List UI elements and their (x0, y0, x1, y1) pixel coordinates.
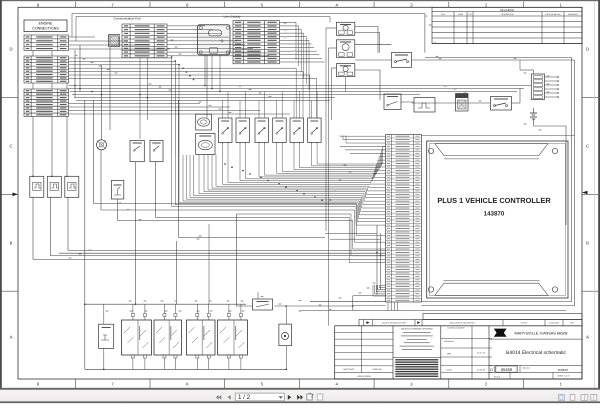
svg-text:11-07-23: 11-07-23 (477, 352, 486, 355)
svg-text:DATE(YR-MO-DA): DATE(YR-MO-DA) (546, 13, 561, 16)
svg-text:SCALE: SCALE (494, 375, 501, 378)
svg-text:11-09-24: 11-09-24 (477, 368, 486, 371)
svg-text:A: A (586, 335, 589, 340)
svg-text:USED ON: USED ON (372, 368, 382, 371)
svg-text:JPG: JPG (447, 353, 452, 356)
svg-text:163230: 163230 (557, 368, 567, 372)
svg-text:C: C (9, 144, 12, 149)
svg-text:TABLE OF REVISION HISTORY: TABLE OF REVISION HISTORY (382, 322, 407, 325)
svg-text:APPLICATION: APPLICATION (357, 375, 371, 378)
svg-text:D: D (9, 47, 12, 52)
svg-text:65459: 65459 (501, 367, 513, 372)
svg-text:MARYSVILLE, KANSAS 66508: MARYSVILLE, KANSAS 66508 (515, 331, 568, 335)
svg-text:ZONE: ZONE (458, 13, 464, 16)
svg-text:D: D (490, 368, 493, 372)
svg-text:UNLESS OTHERWISE SPECIFIED: UNLESS OTHERWISE SPECIFIED (401, 328, 433, 331)
svg-text:CONTRACT NUMBER: CONTRACT NUMBER (447, 327, 465, 330)
svg-text:APPROVED: APPROVED (568, 13, 579, 16)
svg-text:CONNECTIONS: CONNECTIONS (32, 27, 59, 31)
svg-text:APPROVALS: APPROVALS (444, 340, 455, 343)
svg-text:STATUS: STATUS (521, 322, 528, 325)
svg-text:A: A (10, 335, 13, 340)
svg-text:C: C (586, 144, 589, 149)
svg-text:143870: 143870 (484, 211, 505, 218)
svg-text:DESCRIPTION: DESCRIPTION (501, 13, 514, 16)
svg-text:CLJA: CLJA (446, 369, 452, 372)
svg-text:ENGINE: ENGINE (39, 22, 53, 26)
svg-text:B: B (10, 241, 13, 246)
svg-text:REVISIONS: REVISIONS (500, 9, 514, 12)
svg-text:SHEET 1 of 2: SHEET 1 of 2 (557, 375, 569, 378)
svg-text:B: B (586, 241, 589, 246)
svg-text:TABULATION OF DESCRIPTION: TABULATION OF DESCRIPTION (449, 322, 475, 325)
svg-text:NEXT ASSY: NEXT ASSY (343, 368, 355, 371)
svg-text:B4014 Electrical schematic: B4014 Electrical schematic (506, 350, 567, 356)
svg-text:Communication Port: Communication Port (113, 17, 140, 21)
svg-text:D: D (586, 47, 589, 52)
svg-text:PLUS 1 VEHICLE CONTROLLER: PLUS 1 VEHICLE CONTROLLER (437, 196, 551, 205)
svg-text:CAGE CODE: CAGE CODE (549, 322, 560, 325)
